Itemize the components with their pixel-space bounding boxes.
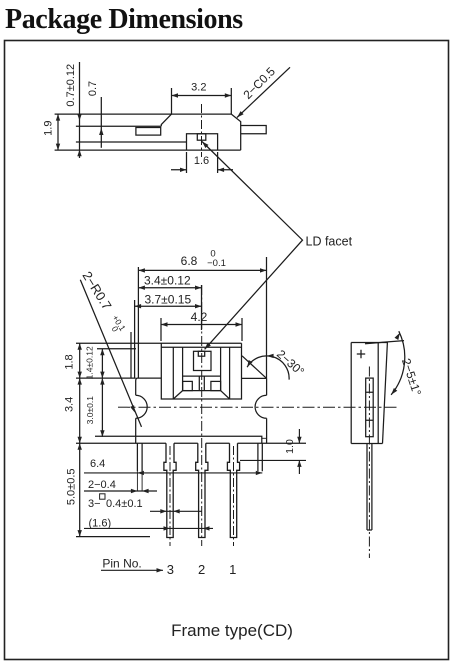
svg-text:LD facet: LD facet [306,235,353,249]
svg-text:1.6: 1.6 [194,155,209,167]
svg-text:Frame type(CD): Frame type(CD) [171,621,293,640]
svg-text:3.0±0.1: 3.0±0.1 [85,396,95,425]
svg-text:2−5±1°: 2−5±1° [399,357,424,398]
svg-text:3.4: 3.4 [64,397,76,412]
svg-text:1: 1 [229,562,236,577]
svg-text:1.9: 1.9 [42,121,54,136]
svg-text:4.2: 4.2 [191,310,208,324]
svg-text:2−0.4: 2−0.4 [88,479,116,491]
svg-text:−0.1: −0.1 [207,258,226,269]
svg-text:3: 3 [167,562,174,577]
svg-text:Pin No.: Pin No. [102,557,141,571]
svg-text:3−: 3− [88,498,101,510]
svg-text:0.7±0.12: 0.7±0.12 [65,64,77,107]
svg-text:5.0±0.5: 5.0±0.5 [66,468,78,505]
svg-text:2: 2 [198,562,205,577]
svg-text:6.4: 6.4 [90,458,105,470]
svg-text:6.8: 6.8 [181,254,198,268]
svg-text:1.8: 1.8 [64,354,76,369]
svg-text:3.4±0.12: 3.4±0.12 [144,274,191,288]
svg-text:3.2: 3.2 [191,82,206,94]
svg-text:0.4±0.1: 0.4±0.1 [106,498,143,510]
svg-text:0.7: 0.7 [87,81,99,96]
svg-text:(1.6): (1.6) [89,517,112,529]
svg-text:3.7±0.15: 3.7±0.15 [145,293,192,307]
svg-text:0: 0 [110,324,121,334]
svg-text:2−30°: 2−30° [274,347,307,379]
svg-text:1.4±0.12: 1.4±0.12 [85,346,95,379]
svg-text:1.0: 1.0 [284,439,296,454]
